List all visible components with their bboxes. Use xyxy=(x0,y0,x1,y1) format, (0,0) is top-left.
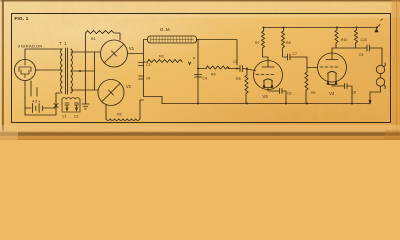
svg-text:C4: C4 xyxy=(146,77,150,81)
svg-text:T 1: T 1 xyxy=(59,41,67,46)
svg-text:V3: V3 xyxy=(263,94,269,99)
svg-text:R7: R7 xyxy=(255,41,260,45)
svg-text:C4: C4 xyxy=(203,77,207,81)
svg-text:R8: R8 xyxy=(286,41,291,45)
svg-text:V2: V2 xyxy=(126,84,132,89)
svg-text:R3: R3 xyxy=(159,55,164,59)
svg-text:C5: C5 xyxy=(233,60,238,64)
svg-text:R5: R5 xyxy=(236,77,241,81)
svg-text:C2: C2 xyxy=(74,115,78,119)
svg-text:C10: C10 xyxy=(361,38,367,42)
svg-text:C9: C9 xyxy=(359,53,363,57)
svg-text:R10: R10 xyxy=(341,38,347,42)
svg-text:C7: C7 xyxy=(293,52,297,56)
svg-text:R9: R9 xyxy=(311,91,315,95)
svg-text:R1: R1 xyxy=(91,37,96,41)
svg-text:R4: R4 xyxy=(211,73,216,77)
svg-text:G.M.: G.M. xyxy=(160,27,172,32)
svg-text:V4: V4 xyxy=(329,91,335,96)
svg-text:C6: C6 xyxy=(287,92,291,96)
svg-text:C3: C3 xyxy=(146,63,150,67)
svg-text:C1: C1 xyxy=(62,115,66,119)
svg-text:FIG. 1: FIG. 1 xyxy=(15,16,29,21)
svg-text:VIBRADOR.: VIBRADOR. xyxy=(18,44,45,49)
svg-text:C8: C8 xyxy=(352,91,356,95)
svg-text:4.5 v: 4.5 v xyxy=(32,100,40,104)
svg-text:R2: R2 xyxy=(117,113,122,117)
svg-text:V1: V1 xyxy=(129,46,135,51)
